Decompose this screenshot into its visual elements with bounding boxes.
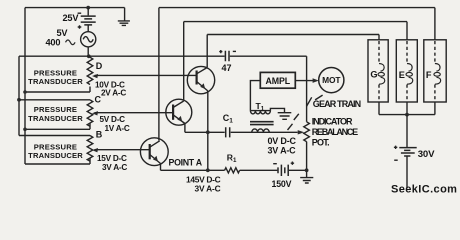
svg-text:TRANSDUCER: TRANSDUCER [28, 77, 83, 86]
wire: C1 to transformer secondary and pot wiper [231, 131, 298, 133]
ac source 5V 400Hz [81, 32, 96, 57]
svg-text:150V: 150V [272, 179, 292, 189]
plus sign of 30V battery [394, 146, 397, 149]
minus sign of capacitor 47 [233, 50, 236, 52]
svg-text:TRANSDUCER: TRANSDUCER [28, 151, 83, 160]
wire: pot bottom to ground junction [306, 142, 308, 171]
transistor Q2 [166, 99, 192, 125]
ground G1 top right of battery [118, 8, 130, 26]
svg-text:G: G [370, 69, 377, 79]
battery B1 25V [81, 8, 96, 32]
svg-text:25V: 25V [63, 13, 80, 23]
node: box1 bottom-left junction [23, 90, 27, 94]
wire: rail corner down to rebalance pot top [306, 56, 308, 122]
svg-text:3V A-C: 3V A-C [195, 184, 221, 194]
svg-text:AMPL: AMPL [266, 76, 291, 86]
winding F coil symbol [434, 64, 441, 85]
wiper arrow C [92, 111, 98, 115]
wire: left vertical between box2 and box3 [24, 129, 26, 135]
capacitor 47 [225, 51, 229, 61]
wire: Q3 emitter lead down to point A line [160, 164, 162, 171]
mechanical link dash 4 [288, 124, 293, 130]
plus sign of 150V battery [291, 162, 294, 165]
svg-text:47: 47 [222, 63, 232, 73]
svg-text:MOT: MOT [322, 75, 341, 85]
wire: wiper C to Q2 base [95, 112, 174, 114]
transistor Q1 [187, 66, 214, 93]
svg-text:5V D-C: 5V D-C [100, 115, 126, 124]
plus sign of capacitor 47 [219, 50, 222, 53]
winding E core dashed line [406, 41, 408, 101]
svg-text:C: C [95, 94, 102, 104]
winding E box [396, 40, 417, 102]
node: point A junction [206, 168, 210, 172]
transformer T1 core [250, 122, 274, 125]
node: battery top junction [86, 6, 90, 10]
ground G2 at transformer [278, 113, 292, 120]
wire: winding common bottom rail [379, 114, 435, 116]
wire: rail to 30V battery [406, 115, 408, 148]
svg-text:E: E [399, 70, 405, 80]
svg-text:400: 400 [46, 38, 61, 48]
potentiometer: indicator rebalance pot [304, 122, 310, 142]
wire: winding E bottom lead [406, 102, 408, 115]
svg-text:T1: T1 [256, 101, 265, 113]
wire: wiper B to Q3 base [95, 149, 150, 151]
wire: Q2 emitter lead down to C1 wire [184, 124, 186, 133]
winding F box [424, 40, 446, 102]
resistor: transducer 3 element [87, 136, 93, 162]
svg-text:2V A-C: 2V A-C [101, 88, 126, 97]
wire: R1 to battery 150V [240, 169, 278, 171]
wire: main rail y56 right of capacitor 47 [230, 55, 307, 57]
svg-text:3V A-C: 3V A-C [268, 145, 297, 155]
svg-text:C1: C1 [223, 113, 234, 125]
svg-text:15V D-C: 15V D-C [97, 154, 127, 163]
wire: primary right lead to ground [270, 108, 284, 112]
wire: AMPL output to motor [295, 80, 314, 82]
wire: main rail y56 left of capacitor 47 [19, 55, 225, 57]
node: junction of x19 feed with transducer 2 top [17, 98, 21, 102]
sine glyph after 400 [66, 40, 76, 45]
transformer T1 secondary winding [252, 129, 269, 132]
resistor: transducer 2 element [87, 100, 93, 127]
wire: primary left lead to AMPL input [250, 81, 260, 111]
wire: wiper D to Q1 base [95, 74, 197, 76]
transistor Q3 [140, 138, 168, 166]
arrowhead into motor [313, 78, 319, 83]
wire: feedback line 1 (Q3 collector to winding F) [159, 8, 435, 40]
wire: Q2 collector vertical [183, 22, 185, 101]
wire: emitter node to capacitor C1 [185, 131, 225, 133]
node: ac source bottom junction on rail [87, 54, 91, 58]
node: junction of Q1 emitter and C1 wire [206, 130, 210, 134]
pressure transducer 3 box [19, 136, 90, 165]
wire: feedback line 2 (Q2 collector to winding E) [184, 22, 407, 40]
mechanical link dash 1 (gear train) [315, 95, 323, 100]
node: windings to 30V battery junction [405, 113, 409, 117]
transformer T1 primary winding [250, 111, 270, 114]
svg-text:5V: 5V [57, 28, 69, 38]
node: pot bottom / 150V ground junction [305, 168, 309, 172]
svg-text:3V A-C: 3V A-C [102, 163, 127, 172]
winding G coil symbol [378, 64, 385, 85]
wire: point A emitter line to R1 [161, 169, 225, 171]
svg-text:POT.: POT. [312, 138, 330, 148]
svg-text:1V A-C: 1V A-C [105, 124, 130, 133]
wire: battery 150V to ground junction [289, 169, 307, 171]
svg-text:B: B [96, 129, 103, 139]
mechanical link dash 2 [307, 97, 312, 106]
capacitor C1 [226, 127, 230, 137]
wiper arrow B [92, 148, 98, 152]
svg-text:INDICATOR: INDICATOR [312, 117, 353, 127]
wiper arrow D [92, 74, 98, 78]
mechanical link dash 3 [294, 114, 299, 120]
wire: Q1 emitter vertical down to node A column [207, 91, 209, 170]
minus sign of 30V battery [394, 159, 398, 161]
pressure transducer 2 box [19, 100, 90, 130]
resistor: transducer 1 element [87, 57, 93, 84]
pressure transducer 1 box [25, 57, 90, 92]
minus sign of 150V battery [273, 163, 277, 165]
svg-text:POINT A: POINT A [169, 157, 203, 167]
amplifier AMPL box [260, 72, 295, 88]
winding E coil symbol [406, 64, 413, 85]
wire: winding G bottom lead [378, 102, 380, 115]
svg-text:REBALANCE: REBALANCE [312, 127, 358, 137]
minus sign of 25V battery [78, 12, 82, 14]
svg-text:F: F [426, 70, 432, 80]
svg-text:TRANSDUCER: TRANSDUCER [28, 114, 83, 123]
battery 150V [278, 165, 288, 176]
resistor R1 [225, 168, 240, 173]
wire: top-left rail [25, 7, 125, 9]
wire: left feed vertical x19 [18, 56, 20, 135]
svg-text:30V: 30V [418, 149, 435, 160]
plus sign of 25V battery [78, 25, 82, 29]
wire: left vertical between box1 and box2 [24, 92, 26, 100]
battery 30V [399, 148, 416, 156]
wire: left vertical from top rail down to transducer rail [24, 8, 26, 57]
motor MOT [319, 68, 344, 93]
svg-text:SeekIC.com: SeekIC.com [391, 184, 457, 196]
svg-text:GEAR TRAIN: GEAR TRAIN [313, 99, 361, 109]
wire: feedback line 3 (Q1 collector to winding G) [207, 35, 379, 40]
wire: winding F bottom lead [434, 102, 436, 115]
winding F core dashed line [434, 41, 436, 101]
pot wiper arrowhead [298, 130, 305, 134]
svg-text:D: D [96, 61, 103, 71]
svg-text:R1: R1 [227, 153, 237, 165]
wire: Q1 collector vertical [206, 35, 208, 68]
winding G core dashed line [378, 41, 380, 101]
ground G3 at 150V return [300, 170, 313, 183]
node: box2 bottom-left junction [23, 128, 27, 132]
wire: Q3 collector vertical [158, 8, 160, 141]
winding G box [368, 40, 388, 102]
wire: 30V battery bottom lead [406, 157, 408, 189]
